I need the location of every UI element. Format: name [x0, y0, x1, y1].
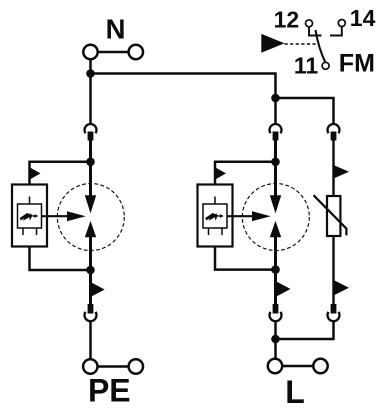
- FM contact 14 terminal circle: [338, 20, 345, 27]
- plug-in disconnect bottom right (socket arc): [328, 312, 340, 321]
- spark gap middle bottom electrode: [270, 221, 281, 237]
- plug-in disconnect top middle (socket arc): [270, 124, 282, 133]
- wire left junction to monitoring box top: [30, 162, 91, 185]
- node left branch top junction: [86, 158, 95, 167]
- lightning bolt symbol middle: [206, 214, 224, 221]
- wire middle plug to spark gap: [274, 141, 277, 197]
- FM contact lever 11-12: [316, 30, 326, 62]
- wire spark gap middle down: [274, 237, 277, 304]
- FM contact 11 terminal circle: [322, 62, 329, 69]
- node bottom merge junction: [271, 335, 280, 344]
- varistor diagonal: [314, 195, 347, 235]
- terminal L circle right: [313, 359, 327, 373]
- FM contact 14 hook wire: [330, 27, 342, 36]
- terminal PE circle left: [83, 359, 97, 373]
- spark gap left top electrode: [85, 195, 96, 213]
- node middle branch top junction: [271, 158, 280, 167]
- svg-text:11: 11: [294, 52, 319, 78]
- wire varistor down: [332, 236, 334, 304]
- arrow flag on middle main branch bottom: [276, 281, 291, 297]
- svg-text:L: L: [285, 374, 305, 408]
- dashed circle spark gap left: [57, 184, 124, 251]
- plug-in disconnect bottom left (socket arc): [85, 312, 97, 321]
- arrow flag on right branch bottom: [334, 280, 350, 296]
- wire middle junction to monitoring box top: [215, 162, 276, 185]
- lightning bolt symbol left: [20, 214, 38, 221]
- arrow flag on middle box branch: [215, 167, 226, 179]
- wire to L terminal: [274, 321, 277, 358]
- monitoring device box middle (outer): [198, 185, 233, 247]
- arrow flag on left main branch bottom: [91, 282, 105, 297]
- arrow flag on left box branch: [30, 167, 41, 179]
- wire N down to left branch: [89, 59, 92, 124]
- wire PE terminal link: [98, 365, 129, 368]
- plug-in disconnect top left (socket arc): [85, 124, 97, 133]
- arrow flag on right branch top: [334, 165, 350, 179]
- wire to PE terminal: [89, 321, 92, 358]
- wire L terminal link: [282, 365, 313, 368]
- wire N junction to middle branch: [91, 74, 276, 99]
- terminal PE circle right: [129, 359, 143, 373]
- node left branch bottom junction: [86, 266, 95, 275]
- monitoring device box middle (inner with pins): [203, 197, 227, 236]
- wire monitoring box left bottom to junction: [30, 247, 91, 271]
- arrow from left box to spark gap: [42, 211, 86, 221]
- plug-in disconnect top left (pin): [88, 132, 94, 141]
- node middle branch bottom junction: [271, 265, 280, 274]
- varistor body: [327, 196, 340, 236]
- wire N terminal link: [98, 51, 129, 54]
- wire right branch bottom merge: [276, 321, 334, 339]
- monitoring device box left (inner with pins): [18, 197, 42, 236]
- FM contact 12 terminal circle: [306, 20, 313, 27]
- wire junction down middle: [274, 98, 277, 124]
- wire junction to right branch: [276, 98, 334, 124]
- plug-in disconnect top right (pin): [331, 132, 337, 141]
- monitoring device box left (outer): [12, 185, 47, 247]
- svg-text:PE: PE: [88, 373, 131, 408]
- dashed circle spark gap middle: [242, 184, 309, 251]
- terminal N circle left: [83, 45, 97, 59]
- terminal N circle right: [129, 45, 143, 59]
- wire right plug to varistor: [332, 141, 334, 197]
- spark gap left bottom electrode: [85, 221, 96, 237]
- svg-text:FM: FM: [339, 50, 375, 78]
- wire spark gap left down: [89, 237, 92, 304]
- plug-in disconnect bottom right (pin): [331, 304, 337, 314]
- FM remote contact signal triangle: [261, 34, 284, 53]
- svg-text:12: 12: [274, 6, 300, 32]
- terminal L circle left: [268, 359, 282, 373]
- node N junction: [86, 69, 95, 78]
- svg-text:14: 14: [350, 5, 376, 31]
- wire monitoring box middle bottom to junction: [215, 247, 276, 270]
- FM contact 12 hook wire: [309, 27, 322, 36]
- plug-in disconnect bottom middle (pin): [273, 304, 279, 314]
- arrow from middle box to spark gap: [227, 211, 271, 221]
- plug-in disconnect top right (socket arc): [328, 124, 340, 133]
- node top distribution junction: [271, 94, 280, 103]
- FM remote contact dashed actuation line: [285, 43, 319, 45]
- svg-text:N: N: [106, 13, 126, 44]
- spark gap middle top electrode: [270, 195, 281, 213]
- plug-in disconnect bottom left (pin): [88, 304, 94, 314]
- wire left plug to spark gap: [89, 141, 92, 197]
- plug-in disconnect top middle (pin): [273, 132, 279, 141]
- plug-in disconnect bottom middle (socket arc): [270, 312, 282, 321]
